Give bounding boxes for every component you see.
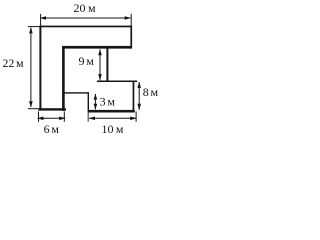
dimension line 20 m — [41, 17, 130, 19]
right edge of top bar — [130, 26, 132, 49]
bottom edge of left foot — [38, 108, 66, 110]
arrowhead 22 m bottom — [29, 101, 33, 107]
extension line left of top edge for 22 m dimension — [28, 26, 40, 27]
dimension line 22 m — [30, 28, 32, 107]
arrowhead 20 m left — [40, 16, 46, 20]
svg-text:20м: 20м — [73, 1, 96, 15]
extension line above left edge for 20 m dimension — [40, 14, 41, 26]
arrowhead 3 m top — [94, 94, 98, 100]
arrowhead 22 m top — [29, 27, 33, 33]
svg-text:9м: 9м — [79, 54, 95, 68]
extension line below left edge of bottom-right block — [87, 111, 90, 122]
dimension line 8 m — [138, 82, 140, 110]
left edge of bottom-right block — [88, 92, 89, 111]
extension line below right edge for 10 m dimension — [136, 111, 137, 121]
arrowhead 10 m left — [89, 117, 95, 121]
arrowhead 6 m right — [59, 117, 65, 121]
top edge of plot (20 m side) — [40, 26, 132, 28]
arrowhead 8 m bottom — [137, 104, 141, 110]
extension line left of foot bottom for 22 m dimension — [28, 108, 38, 109]
neck wall (vertical connector) — [106, 47, 108, 82]
extension line below inner wall for 6 m dimension — [64, 111, 65, 121]
top edge of bottom-right block — [97, 81, 137, 83]
right edge of bottom-right block — [133, 81, 135, 112]
extension line below left edge for 6 m dimension — [38, 111, 39, 121]
dimension line 9 m — [99, 49, 101, 80]
inner horizontal wall (bottom of top bar) — [62, 46, 132, 49]
arrowhead 8 m top — [137, 82, 141, 88]
arrowhead 3 m bottom — [94, 104, 98, 110]
extension line above right edge for 20 m dimension — [131, 14, 132, 26]
svg-text:6м: 6м — [44, 122, 60, 136]
dimension line 6 m — [38, 117, 66, 119]
arrowhead 20 m right — [125, 16, 131, 20]
left edge of plot (22 m side) — [39, 26, 41, 111]
svg-text:3м: 3м — [100, 95, 116, 109]
inner vertical wall (right side of left column) — [62, 46, 65, 111]
bottom edge of bottom-right block — [89, 110, 135, 113]
svg-text:22м: 22м — [2, 56, 24, 70]
svg-text:10м: 10м — [102, 122, 124, 136]
svg-text:8м: 8м — [143, 85, 159, 99]
step ledge line (3 m reference) — [62, 92, 89, 93]
arrowhead 10 m right — [130, 117, 136, 121]
arrowhead 9 m top — [98, 49, 102, 55]
dimension line 3 m — [94, 94, 96, 109]
arrowhead 9 m bottom — [98, 74, 102, 80]
dimension line 10 m — [89, 117, 136, 119]
arrowhead 6 m left — [37, 117, 43, 121]
